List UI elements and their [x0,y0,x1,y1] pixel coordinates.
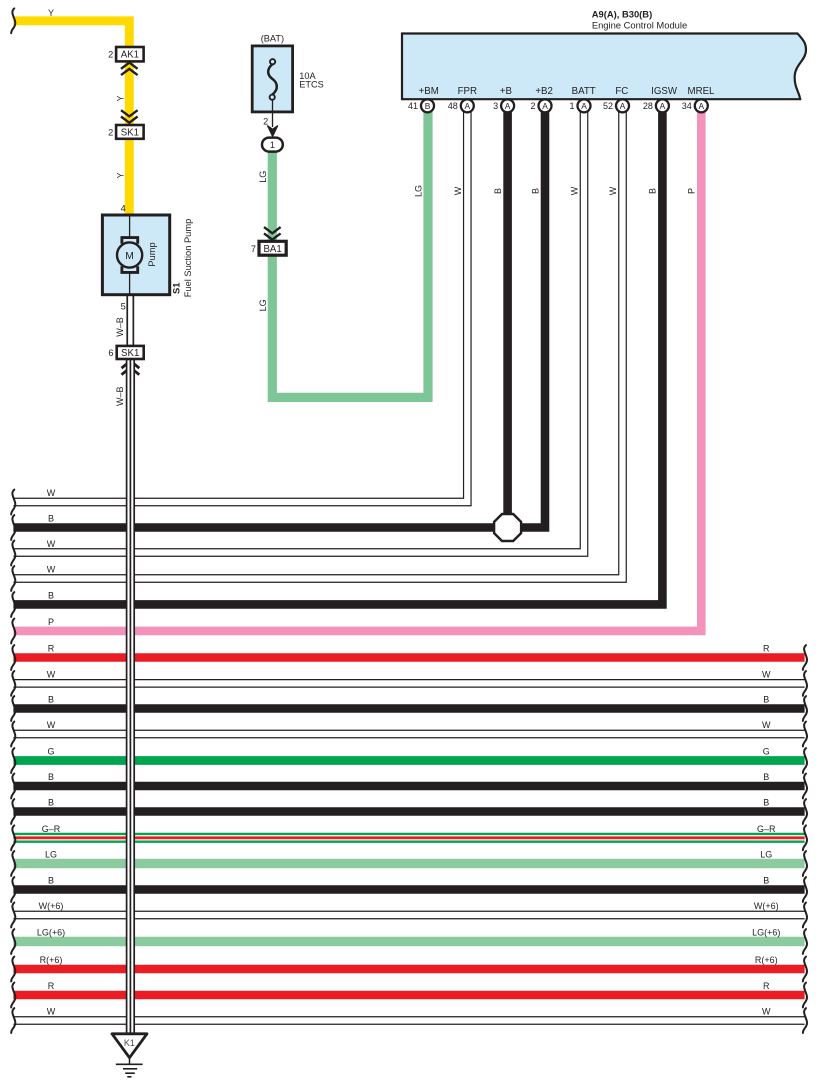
svg-text:W: W [762,720,771,730]
svg-text:FC: FC [615,86,628,97]
break mark right, wire B [803,696,807,721]
wire B: ECM +B down to junction [503,112,512,528]
wire W horizontal y=734.0 [13,730,804,739]
svg-text:LG(+6): LG(+6) [37,928,65,938]
wire B: ECM IGSW to left [13,112,662,604]
svg-text:6: 6 [108,348,113,358]
svg-text:B: B [493,188,503,194]
svg-text:LG: LG [413,185,423,197]
svg-text:G–R: G–R [757,824,776,834]
svg-text:Y: Y [115,172,125,178]
ground K1 triangle [112,1034,147,1058]
break mark left, wire LG(+6) [11,929,15,954]
svg-text:Fuel Suction Pump: Fuel Suction Pump [183,219,193,298]
wire W(+6) horizontal y=915.0 [13,911,804,920]
connector AK1 (pin 2) [116,47,144,61]
svg-text:A: A [620,101,626,111]
svg-text:A: A [660,101,666,111]
svg-text:+BM: +BM [419,86,439,97]
svg-text:G: G [763,747,770,757]
wire B horizontal y=786.0 [13,782,804,791]
svg-text:W: W [762,1007,771,1017]
chevron pair above BA1, pointing down [264,227,281,233]
wire W: ECM FPR to left [13,112,467,502]
svg-text:48: 48 [448,101,458,111]
break mark left, wire W [11,1008,15,1033]
break mark left, wire R [11,983,15,1008]
svg-text:A: A [465,101,471,111]
wire Y feed (battery to fuel suction pump) [13,21,129,215]
arrow into node 1 [268,126,278,136]
svg-text:W: W [47,669,56,679]
svg-text:W–B: W–B [115,317,125,337]
svg-text:+B: +B [500,86,512,97]
brush top [122,238,138,244]
break mark right, wire B [803,877,807,902]
wire B horizontal y=889.5 [13,885,804,894]
wire B horizontal y=708.5 [13,704,804,713]
fuse ETCS box [252,46,292,112]
break mark left, wire W y=553 [11,541,15,566]
break mark left, wire B [11,696,15,721]
break mark left, wire W y=502 [11,490,15,515]
ground stem [129,1058,131,1065]
break mark left, wire R [11,645,15,670]
svg-text:R(+6): R(+6) [755,955,778,965]
svg-text:2: 2 [108,50,113,60]
svg-text:AK1: AK1 [121,50,139,61]
ECM A9(A), B30(B) Engine Control Module box [402,34,806,100]
wire inside pump box [129,216,131,238]
wire LG(+6) horizontal y=941.5 [13,937,804,946]
break mark left, wire G–R [11,825,15,850]
svg-text:1: 1 [270,140,275,150]
junction octagon on B wire [494,514,521,541]
break mark left, wire B [11,799,15,824]
wire R horizontal y=657.5 [13,653,804,662]
svg-text:B: B [763,695,769,705]
wire B: ECM +B2 down and left [13,112,545,528]
chevron pair below SK1 pin6, pointing up (under wire) [122,361,140,368]
svg-text:Engine Control Module: Engine Control Module [592,20,687,31]
fuse element [268,64,277,95]
wire W-B vertical from pump pin 5 to ground K1 [126,295,134,346]
svg-text:(BAT): (BAT) [261,33,284,43]
break mark left, wire W y=578.5 [11,566,15,591]
svg-text:W: W [47,1007,56,1017]
svg-text:W: W [47,539,56,549]
break mark right, wire G–R [803,825,807,850]
svg-text:R: R [763,981,770,991]
svg-text:B: B [48,591,54,601]
connector SK1 (pin 6) [117,346,144,359]
wire W: ECM FC to left [13,112,622,579]
svg-text:1: 1 [569,101,574,111]
break mark left, wire W(+6) [11,903,15,928]
svg-text:2: 2 [530,101,535,111]
break mark right, wire B [803,799,807,824]
break mark left, wire G [11,748,15,773]
wire W horizontal y=683.4 [13,679,804,688]
svg-text:B: B [48,514,54,524]
break mark right, wire R(+6) [803,957,807,982]
wire P: ECM MREL to left [13,112,701,631]
svg-text:IGSW: IGSW [651,86,678,97]
svg-text:W–B: W–B [115,387,125,407]
svg-text:B: B [648,188,658,194]
break mark right, wire LG(+6) [803,929,807,954]
svg-text:G–R: G–R [42,824,61,834]
svg-text:P: P [687,188,697,194]
svg-text:A: A [542,101,548,111]
svg-text:K1: K1 [124,1038,135,1048]
break mark left, wire B y=604.5 [11,592,15,617]
chevron pair above SK1, pointing down [121,110,138,116]
connector BA1 (pin 7) [259,241,286,255]
svg-text:B: B [48,798,54,808]
svg-text:W(+6): W(+6) [754,901,779,911]
svg-text:2: 2 [108,128,113,138]
svg-text:R: R [48,981,55,991]
svg-text:5: 5 [121,302,126,312]
svg-text:FPR: FPR [458,86,477,97]
svg-text:Pump: Pump [147,242,157,266]
wire W: ECM BATT to left [13,112,584,553]
svg-text:R: R [48,644,55,654]
svg-text:A: A [505,101,511,111]
svg-text:B: B [763,798,769,808]
node 1 oval [262,138,283,152]
svg-text:W: W [47,488,56,498]
svg-text:ETCS: ETCS [299,80,324,90]
svg-text:G: G [47,747,54,757]
svg-text:SK1: SK1 [121,127,139,138]
svg-text:W: W [608,186,618,195]
svg-text:LG: LG [258,299,268,311]
svg-text:MREL: MREL [688,86,716,97]
svg-text:LG: LG [258,171,268,183]
chevron pair below AK1, pointing up [121,63,138,69]
svg-text:2: 2 [263,117,268,127]
wire fuse to node 1 [272,100,274,127]
connector SK1 (pin 2) [116,125,144,139]
svg-text:B: B [48,772,54,782]
break mark right, wire R [803,983,807,1008]
break mark right, wire LG [803,851,807,876]
wire W horizontal y=1020.5 [13,1016,804,1025]
svg-text:A: A [581,101,587,111]
svg-text:34: 34 [682,101,692,111]
svg-text:A: A [699,101,705,111]
svg-text:W: W [47,565,56,575]
break mark right, wire R [803,645,807,670]
wire LG horizontal y=863.5 [13,859,804,868]
break mark left, wire B [11,774,15,799]
svg-text:+B2: +B2 [535,86,553,97]
ground bars [116,1063,143,1065]
svg-text:52: 52 [603,101,613,111]
svg-text:3: 3 [493,101,498,111]
svg-text:B: B [763,876,769,886]
wire G horizontal y=760.5 [13,756,804,765]
break mark right, wire G [803,748,807,773]
brush bottom [122,266,138,272]
svg-text:A9(A), B30(B): A9(A), B30(B) [592,9,652,20]
svg-text:R(+6): R(+6) [40,955,63,965]
svg-text:W: W [762,669,771,679]
svg-text:LG(+6): LG(+6) [752,928,780,938]
svg-text:B: B [425,101,431,111]
break mark right, wire B [803,774,807,799]
svg-text:B: B [48,695,54,705]
break mark right, wire W [803,1008,807,1033]
wire R horizontal y=995.0 [13,991,804,1000]
break mark left, wire W [11,671,15,696]
break mark left, wire W [11,722,15,747]
svg-text:B: B [530,188,540,194]
break mark left, wire B [11,877,15,902]
svg-text:BA1: BA1 [263,244,281,255]
svg-text:Y: Y [115,95,125,101]
svg-text:7: 7 [251,244,256,254]
svg-text:W: W [569,186,579,195]
svg-text:B: B [48,876,54,886]
svg-text:LG: LG [760,850,772,860]
svg-text:W: W [453,186,463,195]
break mark left, wire P y=631 [11,619,15,644]
svg-text:R: R [763,644,770,654]
wire LG: fuse ETCS to ECM +BM [272,112,428,397]
wire B horizontal y=811.5 [13,807,804,816]
svg-text:41: 41 [408,101,418,111]
svg-text:M: M [125,251,134,262]
svg-text:P: P [48,617,54,627]
wire G–R horizontal y=837.8 [13,833,804,843]
break mark yellow wire left [11,8,15,33]
motor M circle [117,242,142,267]
component S1 Fuel Suction Pump box [102,215,169,295]
svg-text:SK1: SK1 [121,348,139,359]
svg-text:BATT: BATT [572,86,596,97]
break mark right, wire W [803,722,807,747]
svg-text:4: 4 [121,204,126,214]
svg-text:S1: S1 [172,283,182,294]
break mark left, wire R(+6) [11,957,15,982]
break mark right, wire W [803,671,807,696]
svg-text:28: 28 [643,101,653,111]
break mark right, wire W(+6) [803,903,807,928]
svg-text:W: W [47,720,56,730]
svg-text:LG: LG [45,850,57,860]
svg-text:W(+6): W(+6) [39,901,64,911]
wire R(+6) horizontal y=969.0 [13,965,804,974]
break mark left, wire LG [11,851,15,876]
svg-text:B: B [763,772,769,782]
break mark left, wire B y=527.5 [11,515,15,540]
svg-text:Y: Y [48,8,54,18]
